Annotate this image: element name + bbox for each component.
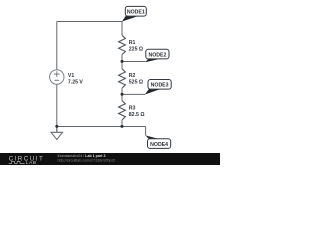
resistor R2 <box>119 69 126 88</box>
node flag NODE4 <box>145 135 170 148</box>
svg-text:NODE1: NODE1 <box>127 10 145 16</box>
svg-text:82.5 Ω: 82.5 Ω <box>129 112 145 118</box>
svg-text:LAB: LAB <box>26 160 37 165</box>
resistor R1 <box>119 35 126 54</box>
wire NODE4 branch vertical stub <box>145 127 147 136</box>
label R3 82.5 ohm <box>129 106 145 118</box>
junction dot node3 <box>121 93 124 96</box>
node flag NODE3 <box>145 80 171 95</box>
svg-text:http://circuitlab.com/c/7336m2: http://circuitlab.com/c/7336m2fhp3f <box>58 158 116 162</box>
junction dot ground node <box>55 125 58 128</box>
svg-text:R1: R1 <box>129 40 136 46</box>
svg-text:V1: V1 <box>68 73 74 79</box>
footer watermark bar <box>0 153 220 165</box>
wire right column segment R2 to R3 <box>121 88 123 101</box>
svg-text:NODE2: NODE2 <box>148 52 166 58</box>
node flag NODE2 <box>145 49 169 62</box>
ground <box>51 126 63 139</box>
wire left vertical from top wire down to V1 plus terminal <box>56 22 58 70</box>
svg-text:R3: R3 <box>129 106 136 112</box>
label V1 value 7.25 V <box>68 73 84 85</box>
svg-text:NODE4: NODE4 <box>150 142 168 148</box>
junction dot node2 <box>121 60 124 63</box>
footer CircuitLab logo <box>9 155 45 166</box>
svg-text:525 Ω: 525 Ω <box>129 79 143 85</box>
svg-text:NODE3: NODE3 <box>151 83 169 89</box>
wire right column segment above R1 <box>121 22 123 36</box>
wire right column segment R1 to R2 <box>121 55 123 69</box>
wire top horizontal from V1 to resistor column <box>57 21 122 23</box>
junction dot node4 <box>121 125 124 128</box>
voltage source V1 <box>50 70 64 84</box>
svg-text:7.25 V: 7.25 V <box>68 79 84 85</box>
wire bottom horizontal from ground node to NODE4 stub <box>57 126 146 128</box>
wire NODE2 branch horizontal <box>122 61 145 63</box>
svg-text:R2: R2 <box>129 73 136 79</box>
node flag NODE1 <box>122 6 146 21</box>
label R2 525 ohm <box>129 73 143 85</box>
resistor R3 <box>119 101 126 120</box>
wire left vertical from V1 minus terminal down to ground node <box>56 84 58 132</box>
svg-text:225 Ω: 225 Ω <box>129 47 143 53</box>
wire right column segment below R3 <box>121 120 123 127</box>
label R1 225 ohm <box>129 40 143 52</box>
wire NODE3 branch horizontal <box>122 93 145 95</box>
